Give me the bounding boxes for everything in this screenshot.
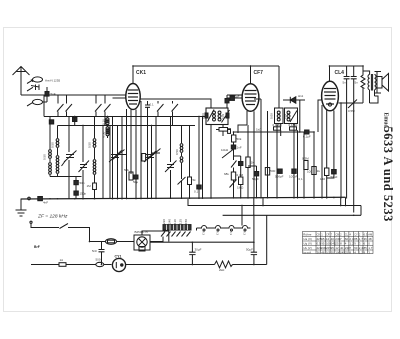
svg-text:1,7: 1,7 [368,246,373,250]
tube CK1 electrodes [128,90,138,104]
capacitor 50uF blob [254,172,258,176]
switch S1e [157,104,164,112]
resistor zigzag B+ [361,66,365,103]
svg-text:Ua (V): Ua (V) [303,237,312,241]
wire: IF2 pins down [277,124,294,199]
wire [104,264,112,266]
tube CL4 envelope [322,81,339,111]
wire [66,264,96,266]
ground [16,210,27,216]
capacitor 500pF blob [278,169,282,173]
svg-text:CL: CL [345,233,349,237]
wire [202,117,204,198]
svg-text:36: 36 [317,250,321,254]
svg-text:125: 125 [179,219,183,224]
selector tap arrows [161,232,191,237]
switch S1a [57,104,64,112]
value label group [34,70,358,272]
antenna tap capacitor [27,85,39,92]
svg-text:48: 48 [321,250,325,254]
svg-text:50µF: 50µF [246,248,253,252]
svg-text:50p: 50p [80,181,85,185]
wire: CL4 screen vertical [340,103,342,199]
svg-text:500: 500 [270,169,275,173]
svg-text:2kΩ: 2kΩ [219,268,225,272]
svg-text:Röhre: Röhre [303,232,312,236]
capacitor 150pF blob [74,191,78,195]
capacitor 5nF antenna [45,92,49,97]
capacitor 100pF blob [239,162,243,166]
svg-text:0,1MΩ: 0,1MΩ [289,123,299,127]
svg-text:40: 40 [331,237,335,241]
wire: band switch stubs left [58,95,67,117]
svg-text:5nF: 5nF [51,92,56,96]
capacitor 10nF hanging b [351,66,357,103]
svg-text:150p: 150p [80,192,87,196]
svg-text:Ug (V): Ug (V) [303,242,312,246]
svg-text:60: 60 [345,237,349,241]
svg-text:0,50: 0,50 [88,142,92,148]
loudspeaker [375,72,382,94]
svg-text:5k: 5k [193,178,197,182]
capacitor blob on detector line [305,130,309,134]
tuning capacitor C1 [64,117,77,199]
svg-text:Ia mA: Ia mA [303,251,311,255]
svg-text:150: 150 [184,219,188,224]
svg-text:36: 36 [364,237,368,241]
wire: heater tap drops [197,206,243,231]
svg-text:68k: 68k [224,172,229,176]
svg-text:CF: CF [326,233,330,237]
resistor 0.3M vertical [231,172,235,180]
transformer heater winding [197,226,251,228]
resistor 0.3M vertical right [304,161,308,170]
svg-text:1kΩ: 1kΩ [256,128,262,132]
wire [155,117,157,199]
svg-text:CY1: CY1 [115,254,122,258]
wire: osc column b [109,126,111,199]
svg-text:100: 100 [307,170,312,174]
svg-text:6,3: 6,3 [243,231,247,235]
svg-text:H11: H11 [298,94,304,98]
resistor 1k cathode CF7 [246,157,250,168]
wire: left riser [43,95,45,117]
svg-text:0,09: 0,09 [221,113,225,119]
output transformer core [371,74,372,91]
antenna coil 0.50 left [49,117,51,150]
wire: right end verticals [341,197,361,215]
svg-text:0,50: 0,50 [102,131,106,137]
capacitor 4nF blob on bus [38,197,43,201]
wire: selector feed [150,237,163,242]
capacitor 50pF blob [74,181,78,185]
capacitor 50uF blob [134,175,138,179]
capacitor 5nF hanging a [344,66,350,103]
svg-text:1A: 1A [60,258,64,262]
oscillator coil 0.16 [107,117,109,127]
wire: top bus CK1 to CF7 [133,65,279,67]
wire: CK1 cathode entry [113,97,126,99]
svg-text:CY: CY [354,233,358,237]
output transformer secondary [374,75,376,90]
thermal fuse oval [106,239,117,245]
wire: CK1 screen line [227,94,242,96]
svg-text:0,1: 0,1 [299,177,304,181]
wire: bridge top to selector [142,231,169,242]
wire [126,109,128,199]
switch on volume pot [231,161,237,173]
capacitor 100pF on grid line [225,99,229,103]
wire: top bus CL4 [330,65,364,67]
terminal circle on bus [28,197,31,200]
IF1 primary coil [213,111,216,114]
svg-text:95: 95 [321,237,325,241]
svg-text:40: 40 [340,246,344,250]
svg-text:1k: 1k [251,161,255,165]
capacitor blob 0.1 [197,185,201,189]
svg-text:12: 12 [326,237,330,241]
wire: band switch stubs right [158,101,173,126]
svg-text:100pF: 100pF [289,175,298,179]
wire: band switch stubs mid [96,95,105,126]
wire [297,130,299,198]
svg-text:100pF: 100pF [231,95,240,99]
IF1 side capacitor blobs [205,113,208,118]
wire: psu risers [254,198,263,216]
svg-text:150: 150 [320,177,325,181]
capacitor 5nF mains [99,242,105,265]
resistor 50k vertical [129,172,133,180]
wire: diode load [299,100,301,132]
svg-text:50µF: 50µF [331,175,338,179]
svg-text:1M: 1M [87,184,92,188]
wire: antenna input to CK1 grid [21,94,126,96]
capacitor 100pF at CF7 grid [230,96,234,100]
resistor 1k vertical [142,154,146,162]
wire [147,117,149,199]
padder capacitor C4 [112,150,126,161]
capacitor blob on coil feed [49,120,53,124]
wire: psu right column [254,215,267,264]
table text [303,232,372,254]
oscillator coil 0.50 fourth [181,126,183,144]
svg-text:6,3: 6,3 [364,233,368,237]
wire [346,103,348,199]
trimmer capacitor C6 [148,149,161,160]
svg-text:85: 85 [354,237,358,241]
capacitor blob on AVC bus [73,118,77,122]
svg-text:0,09: 0,09 [201,113,205,119]
wire [170,117,172,163]
svg-text:0,50: 0,50 [175,149,179,155]
svg-text:48: 48 [368,237,372,241]
svg-text:0,16: 0,16 [102,119,106,125]
wire [135,110,137,199]
potentiometer 10k arrow [222,150,233,159]
tube CF7 envelope [242,84,259,112]
mains fuse 1A [31,264,59,266]
wire: top bus drop to detector [278,66,280,108]
svg-text:CB: CB [335,233,339,237]
tube CF7 electrodes [245,91,257,105]
volume control column: resistor 50k [232,135,236,142]
IF transformer 1 box [206,108,228,125]
tuning capacitor C2 [79,126,90,199]
capacitor 50uF electrolytic [251,242,257,264]
output transformer primary [368,75,370,90]
svg-text:10kΩ: 10kΩ [221,148,229,152]
svg-text:1MΩ: 1MΩ [237,186,244,190]
IF1 trimmer arrows [208,110,230,123]
capacitor 30uF electrolytic [189,242,195,264]
wire: AVC bus [44,116,206,118]
svg-text:CK1: CK1 [136,70,146,76]
IF2 trimmer arrow [290,111,297,123]
heater winding taps [203,229,205,231]
svg-text:50k: 50k [124,168,129,172]
wire: cathode bus [58,125,196,127]
antenna tap coil L1 [33,77,43,82]
capacitor 0.1 at CK1 anode [145,101,150,117]
wire: bridge dc out [150,241,254,243]
svg-text:50k: 50k [237,137,242,141]
wire: CL4 cathode column [321,105,323,199]
trimmer capacitor C5 [144,151,157,163]
resistor 0.1M below IF2b [290,127,297,130]
svg-text:60: 60 [354,246,358,250]
svg-text:6,3: 6,3 [229,231,233,235]
resistor 2k vertical [239,177,243,185]
voltage selector block [163,225,191,230]
svg-text:1nF: 1nF [237,146,242,150]
svg-text:Ant-N 1255: Ant-N 1255 [45,79,61,83]
wire: CK1 anode to IF1 [141,99,212,108]
wire: mains line upper [90,241,135,243]
svg-text:95: 95 [331,246,335,250]
svg-text:0,50: 0,50 [43,154,47,160]
svg-text:CF7: CF7 [254,70,264,76]
switch S1c [95,104,102,112]
wire: mains switch [30,221,32,223]
wire [353,103,355,213]
svg-text:0,50: 0,50 [51,142,55,148]
wire [151,126,153,199]
resistor 1M vertical [93,183,97,190]
svg-text:5nF: 5nF [92,249,97,253]
svg-text:240: 240 [168,219,172,224]
svg-text:50µF: 50µF [252,177,259,181]
switch S1d [104,104,111,112]
wire: chassis bus [21,197,346,199]
wire: heater bus B [223,214,361,216]
svg-text:B250 C75: B250 C75 [135,230,149,234]
svg-text:30µF: 30µF [195,248,202,252]
svg-text:0,09: 0,09 [283,113,287,119]
wire: coil common [50,176,82,178]
wire: vertical x267.5 [267,111,269,199]
tube CK1 envelope [126,84,140,110]
tube CL4 top cap wire [329,66,331,81]
wire [130,109,132,174]
padder capacitor C3 [109,151,122,163]
svg-text:500: 500 [96,258,101,262]
svg-text:110: 110 [173,219,177,224]
svg-text:5n: 5n [355,81,359,85]
svg-text:0,09: 0,09 [270,113,274,119]
wire: af coupling vertical [313,132,315,199]
svg-text:85: 85 [364,246,368,250]
IF transformer 2 secondary box [285,108,298,124]
svg-text:95: 95 [321,241,325,245]
wire: chassis drop to ground [20,199,22,211]
svg-text:1k: 1k [317,169,321,173]
capacitor 50uF blob CL4 [332,170,337,174]
coil 0.50 third [94,117,96,139]
resistor 150 vertical [325,168,329,176]
IF1 secondary coil [218,111,221,114]
wire [326,110,328,168]
svg-text:5n: 5n [343,81,347,85]
wire [121,117,123,199]
switch S1f [172,104,179,112]
potentiometer wiper arrow [230,180,237,199]
wire: vertical grid column under CK1 [112,117,114,199]
bridge rectifier B250 C75 [134,235,150,250]
resistor 500 vertical [265,168,269,176]
potentiometer 0.5M tone [338,100,363,109]
svg-text:BrF: BrF [34,245,40,249]
svg-text:5633 A und 5233: 5633 A und 5233 [381,127,395,222]
svg-text:Uk (V): Uk (V) [303,246,312,250]
svg-text:12: 12 [335,246,339,250]
diode detector [283,99,305,101]
svg-text:0,1µF: 0,1µF [303,135,311,139]
resistor zigzag psu [215,261,233,268]
wire [117,126,119,199]
svg-text:0,1: 0,1 [194,190,199,194]
voltage table [303,232,374,254]
wire: detector output line [234,131,315,133]
svg-text:25: 25 [345,250,349,254]
wire: CL4 grid from AF line [318,100,322,132]
dial lamp [112,258,125,271]
wire: CF7 cathode pins [247,111,254,199]
svg-text:6,3: 6,3 [216,231,220,235]
svg-text:AM: AM [368,233,372,237]
svg-text:CL4: CL4 [335,70,345,76]
wire: heater bus A [188,199,361,206]
svg-text:50µ: 50µ [133,180,138,184]
capacitor 1nF blob [231,145,235,149]
resistor 5k vertical [188,177,192,185]
wire: speaker frame lower bracket [370,90,379,103]
antenna [13,67,30,96]
tube CK1 top cap wire [132,66,134,84]
svg-text:4nF: 4nF [43,201,48,205]
svg-text:95: 95 [331,250,335,254]
svg-text:ZF = 128 kHz: ZF = 128 kHz [37,214,68,220]
svg-text:0,1: 0,1 [150,103,155,107]
switch S1b [66,104,73,112]
wire: vertical x261 [254,99,261,199]
wire: osc column a [102,126,104,199]
tuning capacitor C7 [165,161,177,199]
antenna tap coil L2 [33,99,43,104]
resistor 1k below IF1 [219,128,228,132]
wire [303,132,305,199]
wire: transformer top to b+ [363,71,370,75]
tube CF7 top cap wire [250,66,252,84]
IF transformer 2 primary box [275,108,284,124]
tube CL4 electrodes [324,89,336,105]
wire: IF1 pins down [210,125,212,199]
resistor 0.1M below IF2a [274,127,281,130]
svg-text:1k: 1k [147,155,151,159]
wire [140,101,142,199]
svg-text:0,5M: 0,5M [348,109,355,113]
trimmer arrow on osc coil [178,177,186,185]
resistor 1k vertical [312,167,316,175]
svg-text:500pF: 500pF [275,175,284,179]
svg-text:0,3M: 0,3M [302,157,309,161]
svg-text:CK: CK [317,233,321,237]
fuse 500mA [96,262,104,266]
wire [126,264,254,266]
svg-text:6,3: 6,3 [202,231,206,235]
svg-text:25: 25 [335,241,339,245]
svg-text:0,1MΩ: 0,1MΩ [273,123,283,127]
antenna coil 0.50 second [57,126,59,139]
resistor small below IF1 [228,129,231,134]
capacitor 100pF blob [292,169,296,173]
trimmer arrow small [62,161,66,167]
svg-text:0,3M: 0,3M [237,173,244,177]
svg-text:220: 220 [162,219,166,224]
